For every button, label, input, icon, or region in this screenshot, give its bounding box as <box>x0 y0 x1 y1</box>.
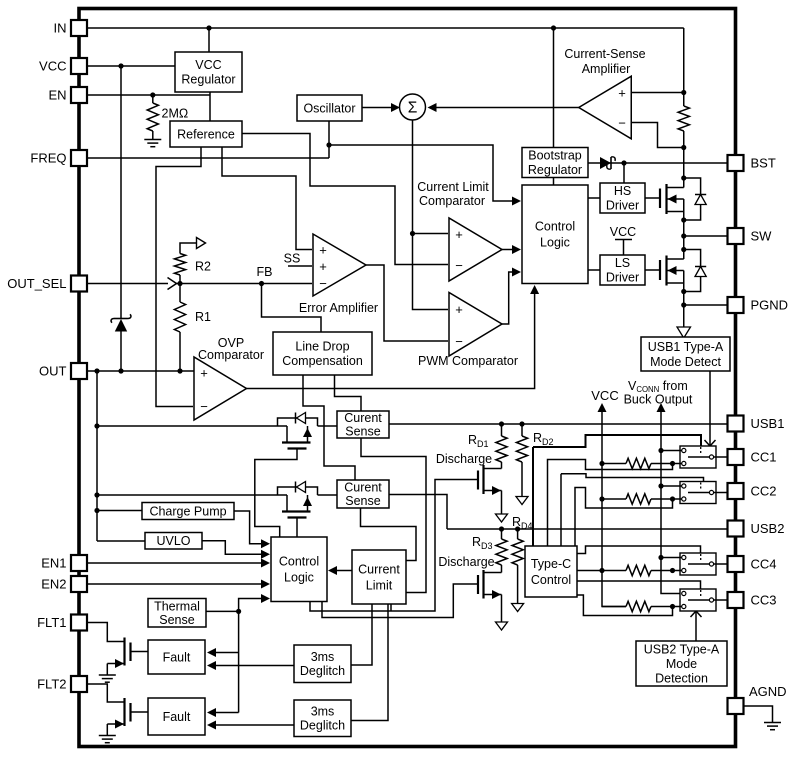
wire current limit bottom stub <box>390 604 392 611</box>
node Q2 source junction <box>681 289 686 294</box>
arrow R2 top <box>197 238 206 249</box>
node divider tap <box>177 281 182 286</box>
wire Q3 output to current sense 1 <box>318 425 338 427</box>
supply tee VCC to LS driver <box>615 239 632 241</box>
svg-text:Buck Output: Buck Output <box>624 393 693 407</box>
wire OUT pin line <box>87 370 194 372</box>
wire OUT rail down left side <box>96 371 98 541</box>
svg-text:LS: LS <box>615 256 630 270</box>
pin USB1 <box>728 416 744 432</box>
Bootstrap Regulator U-BSTREG <box>522 148 588 178</box>
svg-text:Control: Control <box>535 220 575 234</box>
wire VCONN to S3 top contact <box>661 557 682 559</box>
svg-text:Current: Current <box>358 562 400 576</box>
svg-text:EN: EN <box>48 88 66 103</box>
wire AGND to ground <box>744 706 773 722</box>
wire OVP output to control logic <box>247 290 535 389</box>
wire mode detect 1 to switch CC1 <box>709 371 711 446</box>
wire line drop compensation to current sense 1 <box>335 375 362 411</box>
transistor Q3 load switch PMOS 1 <box>286 426 288 443</box>
svg-text:CC3: CC3 <box>751 593 777 608</box>
resistor 2M&#937; <box>152 95 154 103</box>
pin FLT1 <box>71 615 87 631</box>
svg-text:EN1: EN1 <box>41 556 66 571</box>
wire PGND node <box>683 292 685 328</box>
wire OUT to load switch 2 <box>97 494 287 496</box>
svg-text:USB2: USB2 <box>751 521 785 536</box>
wire PWM comparator output to control logic <box>502 272 517 324</box>
Type-C Control U-TCC <box>525 546 577 597</box>
resistor RD3 <box>496 539 507 565</box>
svg-text:Bootstrap: Bootstrap <box>528 149 582 163</box>
Line Drop Compensation U-LDC <box>273 332 372 375</box>
diode schottky bootstrap D1 <box>600 157 611 169</box>
diode body of Q1 <box>684 178 701 195</box>
node IN-to-bootstrap junction <box>551 25 556 30</box>
transistor Q4 load switch PMOS 2 <box>286 495 288 512</box>
pin FREQ <box>71 150 87 166</box>
wire control logic to discharge fet 2 gate <box>322 584 478 618</box>
wire Reference to OVP comparator inverting input <box>156 147 201 407</box>
wire thermal sense to control logic <box>206 610 239 612</box>
svg-text:EN2: EN2 <box>41 577 66 592</box>
wire current sense 2 to current limit <box>361 508 417 561</box>
ground below Q6 <box>99 735 116 737</box>
node FREQ-oscillator junction <box>326 142 331 147</box>
resistor current-sense <box>683 28 685 106</box>
node RD1 junction <box>499 421 504 426</box>
svg-text:CC2: CC2 <box>751 484 777 499</box>
wire line drop compensation to current sense 2 <box>303 375 355 480</box>
wire BST line <box>588 162 728 164</box>
ground below Q5 <box>99 674 116 676</box>
svg-text:Curent: Curent <box>344 411 382 425</box>
Curent Sense 2 U-CS2 <box>337 480 389 508</box>
wire SS stub <box>288 265 312 267</box>
transistor Q1 high-side NMOS <box>645 197 660 199</box>
pin CC4 <box>728 556 744 572</box>
transistor Q2 low-side NMOS <box>645 269 660 271</box>
wire BST node to HS driver <box>623 163 625 183</box>
svg-text:R2: R2 <box>195 260 211 274</box>
wire CC2 switch control from type-c <box>561 474 704 482</box>
svg-text:Comparator: Comparator <box>419 194 485 208</box>
svg-text:Compensation: Compensation <box>282 354 363 368</box>
svg-text:VCC: VCC <box>39 59 66 74</box>
switch S4 CC3 <box>680 589 716 611</box>
svg-text:Deglitch: Deglitch <box>300 719 345 733</box>
wire OUT to load switch 1 <box>97 425 287 427</box>
svg-text:Mode: Mode <box>666 657 697 671</box>
switch S3 CC4 <box>680 553 716 575</box>
wire thermal sense to fault blocks <box>238 611 240 712</box>
svg-text:−: − <box>455 334 463 349</box>
summing junction sigma <box>400 94 426 120</box>
wire charge pump to control logic <box>234 511 266 544</box>
node Q1 source junction <box>681 217 686 222</box>
wire CC3 switch control from type-c <box>577 581 701 589</box>
pin FLT2 <box>71 676 87 692</box>
svg-text:−: − <box>319 276 327 291</box>
wire charge pump feed <box>97 510 142 512</box>
pin SW <box>728 228 744 244</box>
wire EN2 to control logic <box>87 583 266 585</box>
svg-text:AGND: AGND <box>749 684 787 699</box>
svg-text:Regulator: Regulator <box>528 163 582 177</box>
Reference U-REF <box>170 121 242 147</box>
svg-text:Driver: Driver <box>606 271 639 285</box>
transistor Q6 FLT2 pulldown <box>87 684 125 702</box>
Control Logic U-CTRL2 <box>271 537 327 602</box>
svg-text:Fault: Fault <box>163 710 191 724</box>
svg-text:3ms: 3ms <box>311 705 335 719</box>
resistor pull-up CC2 row <box>602 498 626 500</box>
node CSA plus junction <box>681 90 686 95</box>
resistor R1 <box>179 284 181 303</box>
wire CC1 node to type-c control <box>548 460 673 547</box>
pin EN1 <box>71 555 87 571</box>
svg-text:Thermal: Thermal <box>154 599 200 613</box>
svg-text:Sense: Sense <box>345 425 380 439</box>
3ms Deglitch 2 U-DG2 <box>294 700 351 737</box>
svg-text:Comparator: Comparator <box>198 348 264 362</box>
wire Q4 gate to control logic <box>296 518 298 538</box>
svg-text:−: − <box>455 258 463 273</box>
svg-text:Regulator: Regulator <box>181 73 235 87</box>
svg-text:Fault: Fault <box>163 650 191 664</box>
wire current limit comparator output to control logic <box>502 249 517 251</box>
node CC1 row junction <box>670 461 675 466</box>
switch S1 CC1 <box>680 446 716 468</box>
wire VCC Regulator to Reference <box>209 92 211 121</box>
svg-text:Deglitch: Deglitch <box>300 664 345 678</box>
wire mode detection 2 to switch CC3 <box>695 612 697 642</box>
wire VCONN to S2 top contact <box>661 485 682 487</box>
wire USB1 line from current sense 1 <box>389 423 728 425</box>
svg-text:VCC: VCC <box>610 225 636 239</box>
diode body of Q4 <box>278 487 318 495</box>
svg-text:SS: SS <box>284 252 301 266</box>
pin EN <box>71 87 87 103</box>
svg-text:SW: SW <box>751 229 773 244</box>
op-amp current-sense amplifier U-CSA <box>579 76 632 139</box>
Control Logic U-CTRL1 <box>522 185 588 284</box>
wire UVLO feed <box>97 540 145 542</box>
svg-text:+: + <box>319 243 327 258</box>
wire to current limit comparator noninverting input <box>413 233 449 235</box>
comparator PWM U-CMP2 <box>449 293 502 357</box>
LS Driver U-LSDRV <box>600 255 645 285</box>
svg-text:BST: BST <box>751 156 776 171</box>
wire OUT_SEL pin to divider tap <box>87 283 168 285</box>
diode zener VCC-OUT clamp <box>120 66 122 319</box>
svg-text:OUT: OUT <box>39 364 67 379</box>
wire 3ms deglitch 2 to fault 2 <box>211 724 294 726</box>
pin AGND <box>728 698 744 714</box>
wire USB2 line <box>447 528 728 530</box>
pin IN <box>71 20 87 36</box>
svg-text:VCC: VCC <box>591 388 618 403</box>
pin OUT <box>71 363 87 379</box>
svg-text:Logic: Logic <box>284 571 314 585</box>
svg-text:Driver: Driver <box>606 199 639 213</box>
node CC2 row junction <box>670 496 675 501</box>
wire control logic to LS driver <box>588 269 600 271</box>
svg-text:Current-Sense: Current-Sense <box>564 47 645 61</box>
wire FREQ pin to oscillator <box>87 157 329 159</box>
pin VCC <box>71 58 87 74</box>
comparator current-limit U-CMP1 <box>449 218 502 281</box>
svg-text:Oscillator: Oscillator <box>303 101 355 115</box>
svg-text:HS: HS <box>614 184 631 198</box>
node VCC-zener junction <box>118 63 123 68</box>
svg-text:FREQ: FREQ <box>30 151 66 166</box>
wire VCONN to S1 top contact <box>661 450 682 452</box>
diode body of Q3 <box>278 418 318 426</box>
wire UVLO to control logic <box>202 541 266 555</box>
resistor RD4 <box>512 539 523 565</box>
wire 3ms deglitch 1 to fault 1 <box>211 665 294 667</box>
resistor pull-up CC1 row <box>602 463 626 465</box>
transistor Q5 FLT1 pulldown <box>87 623 125 642</box>
pin CC3 <box>728 592 744 608</box>
HS Driver U-HSDRV <box>600 183 645 213</box>
svg-text:R1: R1 <box>195 310 211 324</box>
wire current limit to control logic <box>332 570 352 572</box>
svg-text:Limit: Limit <box>366 578 393 592</box>
svg-text:Mode Detect: Mode Detect <box>650 355 721 369</box>
resistor RD2 <box>516 436 527 462</box>
svg-text:CC4: CC4 <box>751 557 777 572</box>
VCC Regulator U-VCCREG <box>175 52 242 92</box>
node RD2 junction <box>519 421 524 426</box>
svg-text:USB1: USB1 <box>751 416 785 431</box>
svg-text:Sense: Sense <box>345 494 380 508</box>
wire EN pin line <box>87 94 210 96</box>
wire CC1 switch control from type-c <box>533 435 701 447</box>
ground arrow below PGND <box>677 327 691 338</box>
Thermal Sense U-TS <box>148 599 206 628</box>
wire Reference to error amplifier noninverting input <box>222 147 312 250</box>
svg-text:Sense: Sense <box>159 613 194 627</box>
wire oscillator to summing junction <box>362 107 396 109</box>
svg-text:2MΩ: 2MΩ <box>162 107 189 121</box>
svg-text:FLT1: FLT1 <box>37 615 66 630</box>
node CSA minus junction <box>681 145 686 150</box>
Fault 1 U-FLT1 <box>148 640 205 674</box>
svg-text:Error Amplifier: Error Amplifier <box>299 301 378 315</box>
pin OUT_SEL <box>71 276 87 292</box>
wire oscillator to control logic <box>329 145 519 201</box>
Current Limit U-CLIM <box>352 550 406 604</box>
pin CC2 <box>728 483 744 499</box>
wire summing junction to comparators <box>413 120 449 310</box>
pin PGND <box>728 297 744 313</box>
svg-text:UVLO: UVLO <box>156 534 190 548</box>
svg-text:+: + <box>319 259 327 274</box>
wire CC4 switch control from type-c <box>577 546 701 554</box>
wire Reference to current-limit comparator inverting input <box>242 134 448 265</box>
svg-text:Reference: Reference <box>177 127 235 141</box>
svg-text:FB: FB <box>257 265 273 279</box>
svg-text:+: + <box>200 366 208 381</box>
ground AGND <box>764 722 781 724</box>
svg-text:Type-C: Type-C <box>531 557 571 571</box>
transistor Q8 discharge FET 2 <box>477 575 479 594</box>
svg-text:VCC: VCC <box>195 58 221 72</box>
wire Q4 output to current sense 2 <box>318 494 338 496</box>
node CC3 row junction <box>670 604 675 609</box>
svg-text:−: − <box>200 399 208 414</box>
UVLO U-UVLO <box>145 533 202 550</box>
node RD3 junction <box>499 526 504 531</box>
wire FB to line drop compensation <box>262 284 322 333</box>
svg-text:+: + <box>455 302 463 317</box>
USB1 Type-A Mode Detect U-MD1 <box>641 337 730 371</box>
svg-text:Control: Control <box>279 555 319 569</box>
svg-text:Amplifier: Amplifier <box>582 62 631 76</box>
wire Q3 gate to control logic <box>255 449 297 538</box>
wire control logic to discharge fet 1 gate <box>310 480 478 612</box>
pin BST <box>728 155 744 171</box>
svg-text:IN: IN <box>54 21 67 36</box>
svg-text:Discharge: Discharge <box>436 452 492 466</box>
comparator OVP U-CMP3 <box>194 357 247 420</box>
node summing line to current limit comparator <box>410 231 415 236</box>
node RD4 junction <box>515 526 520 531</box>
wire error amplifier output to PWM comparator <box>366 265 448 341</box>
wire IN rail <box>87 27 684 29</box>
pin EN2 <box>71 576 87 592</box>
pin CC1 <box>728 449 744 465</box>
wire VCCreg top feed <box>208 28 210 52</box>
svg-text:−: − <box>618 116 626 131</box>
wire IN to bootstrap regulator <box>553 28 555 148</box>
3ms Deglitch 1 U-DG1 <box>294 645 351 683</box>
svg-text:Charge Pump: Charge Pump <box>149 504 226 518</box>
svg-text:FLT2: FLT2 <box>37 677 66 692</box>
wire current sense 1 to current limit <box>361 438 426 593</box>
ground below 2Mohm resistor <box>144 139 161 141</box>
op-amp error amplifier U-EA <box>313 234 366 296</box>
svg-text:OUT_SEL: OUT_SEL <box>7 276 66 291</box>
resistor pull-up CC3 row <box>602 606 626 608</box>
wire CS amp - input <box>631 123 684 148</box>
svg-text:CC1: CC1 <box>751 450 777 465</box>
svg-text:Current Limit: Current Limit <box>417 180 489 194</box>
svg-text:PWM Comparator: PWM Comparator <box>418 354 518 368</box>
node EN-2Mohm junction <box>150 92 155 97</box>
wire CC3 node to type-c control <box>577 595 673 616</box>
resistor R2 <box>179 275 181 284</box>
wire FB line <box>177 283 313 285</box>
resistor RD1 discharge <box>496 436 507 462</box>
node sense-resistor to HS drain <box>681 175 686 180</box>
svg-text:+: + <box>618 86 626 101</box>
wire CS amp + input <box>631 92 684 94</box>
svg-text:Line Drop: Line Drop <box>295 340 349 354</box>
svg-text:USB2 Type-A: USB2 Type-A <box>644 642 720 656</box>
wire current limit to 3ms deglitch 1 <box>351 604 372 665</box>
node BST-HS driver junction <box>621 160 626 165</box>
diode body of Q2 <box>684 250 701 267</box>
transistor Q7 discharge FET 1 <box>477 471 479 490</box>
wire control logic to HS driver <box>588 197 600 199</box>
svg-text:USB1 Type-A: USB1 Type-A <box>648 340 724 354</box>
wire bootstrap to control logic <box>553 178 555 186</box>
Oscillator U-OSC <box>297 95 362 121</box>
wire current-sense amplifier to summing junction <box>436 107 579 109</box>
wire VCC pin to VCC Regulator <box>87 65 175 67</box>
wire SW node <box>683 220 685 250</box>
Charge Pump U-CP <box>142 503 234 520</box>
switch S2 CC2 <box>680 482 716 504</box>
svg-text:Discharge: Discharge <box>438 555 494 569</box>
svg-text:PGND: PGND <box>751 298 789 313</box>
wire current sense 2 output to USB2 line <box>389 495 447 530</box>
svg-text:Logic: Logic <box>540 236 570 250</box>
svg-text:Detection: Detection <box>655 671 708 685</box>
resistor pull-up CC4 row <box>577 570 626 572</box>
Fault 2 U-FLT2 <box>148 698 205 735</box>
node IN-to-VCCreg junction <box>206 25 211 30</box>
USB2 Type-A Mode Detection U-MD2 <box>636 641 727 686</box>
svg-text:Control: Control <box>531 573 571 587</box>
svg-text:Curent: Curent <box>344 481 382 495</box>
svg-text:3ms: 3ms <box>311 650 335 664</box>
Curent Sense 1 U-CS1 <box>337 411 389 438</box>
svg-text:+: + <box>455 227 463 242</box>
wire EN1 to control logic <box>87 562 266 564</box>
pin USB2 <box>728 521 744 537</box>
svg-text:Σ: Σ <box>408 100 418 117</box>
wire CC2 node to type-c control <box>575 488 673 547</box>
IC boundary box <box>79 9 736 747</box>
node CC4 row junction <box>670 568 675 573</box>
wire current limit to 3ms deglitch 2 <box>351 604 388 721</box>
node FB <box>259 281 264 286</box>
